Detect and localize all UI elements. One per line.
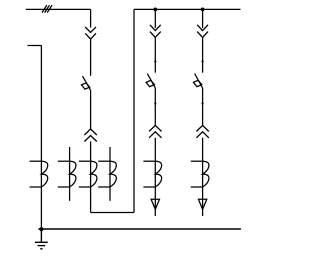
wire riser to top-right bus — [133, 9, 135, 212]
drawout chevron (up) feeder3 — [196, 125, 208, 137]
wire lower link horizontal — [91, 212, 134, 214]
current transformer CT5 on feeder2 — [143, 161, 161, 187]
wire feeder2 switch to up-chevron — [154, 88, 156, 126]
node tick feeder3 lower — [202, 102, 204, 104]
node junction dot feeder3 on bus — [201, 7, 205, 11]
load arrow feeder3 — [198, 199, 206, 209]
wire bottom bus — [39, 228, 241, 230]
wire feeder1 chevron to switch — [90, 39, 92, 76]
node tick feeder2 lower — [154, 102, 156, 104]
wire top-right bus — [134, 8, 241, 10]
wire feeder2 drop from bus — [154, 9, 156, 28]
node junction dot feeder2 on bus — [153, 7, 157, 11]
wire feeder3 through CT to arrow — [202, 138, 204, 216]
wire feeder2 chevron to switch — [154, 37, 156, 72]
current transformer CT3 on feeder1 line — [79, 161, 97, 187]
current transformer CT4 — [98, 161, 116, 187]
line mark /// on incoming supply — [42, 5, 52, 12]
wire cluster line A — [69, 147, 71, 201]
wire feeder1 drop from incoming corner — [90, 9, 92, 27]
drawout chevron (up) feeder2 — [149, 125, 161, 137]
wire feeder3 switch to up-chevron — [202, 88, 204, 126]
node junction dot ground — [39, 227, 43, 231]
drawout chevron (up) feeder1 — [84, 129, 96, 142]
wire feeder3 drop from bus — [202, 9, 204, 28]
node tick feeder2 upper — [154, 60, 156, 62]
current transformer CT1 on left branch — [30, 161, 48, 187]
switch Q3 (load-break switch feeder3) — [193, 74, 202, 88]
drawout chevron (down) feeder2 — [150, 25, 161, 38]
drawout chevron (down) feeder1 — [85, 27, 96, 39]
current transformer CT2 — [58, 161, 76, 187]
wire cluster line B — [109, 147, 111, 201]
wire incoming supply line (top left horizontal) — [26, 8, 91, 10]
drawout chevron (down) feeder3 — [197, 25, 208, 38]
current transformer CT6 on feeder3 — [191, 161, 209, 187]
ground — [35, 229, 48, 249]
wire left branch stub — [28, 45, 42, 47]
wire feeder1 through CT to lower corner — [90, 141, 92, 212]
switch Q2 (load-break switch feeder2) — [146, 74, 155, 88]
wire left branch vertical — [40, 46, 42, 230]
node tick feeder3 upper — [202, 60, 204, 62]
wire feeder1 switch to up-chevron — [90, 90, 92, 129]
wire feeder2 through CT to arrow — [154, 138, 156, 216]
switch Q1 (load-break switch feeder1) — [82, 76, 91, 90]
load arrow feeder2 — [151, 199, 159, 209]
wire feeder3 chevron to switch — [202, 37, 204, 72]
